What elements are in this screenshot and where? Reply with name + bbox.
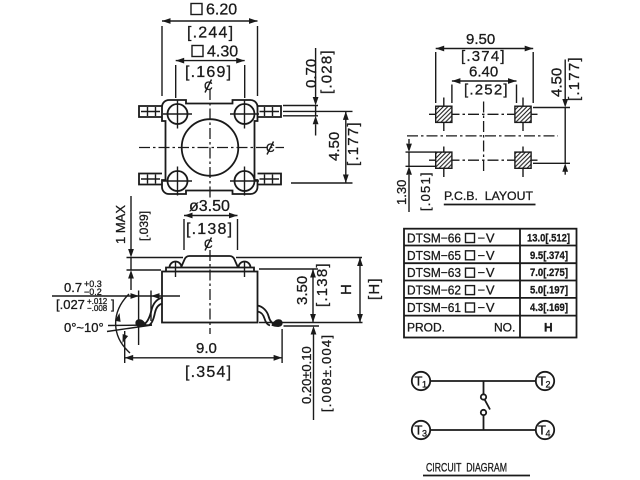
svg-text:−V: −V [478, 300, 495, 315]
pad top-left [436, 106, 452, 122]
svg-text:[.027: [.027 [56, 297, 85, 312]
centerline symbol top [204, 79, 213, 93]
svg-text:0.20±0.10: 0.20±0.10 [299, 346, 314, 404]
dimension 6.20 [162, 2, 258, 97]
cover tab bump left [170, 262, 182, 278]
dimension [.244] [187, 25, 234, 42]
side view body [162, 272, 258, 323]
vertical centerline [209, 89, 211, 199]
table row PROD NO H [407, 321, 553, 335]
dimension H overall height [338, 258, 383, 323]
table row DTSM-66 [407, 231, 570, 246]
svg-text:DTSM−62: DTSM−62 [407, 283, 461, 298]
svg-text:DTSM−63: DTSM−63 [407, 265, 461, 280]
svg-text:[H]: [H] [366, 277, 383, 300]
svg-text:DTSM−65: DTSM−65 [407, 248, 461, 263]
svg-text:3: 3 [422, 429, 427, 439]
dimension [.374] [461, 48, 506, 65]
svg-text:1 MAX: 1 MAX [113, 205, 128, 244]
terminal T2 [536, 372, 554, 390]
svg-text:[.039]: [.039] [137, 211, 151, 241]
table row DTSM-65 [407, 248, 568, 263]
switch lever [485, 400, 490, 410]
terminal T4 [536, 421, 554, 439]
terminal pin top-left [139, 106, 162, 117]
dimension [.169] [185, 64, 232, 81]
svg-text:PROD.: PROD. [407, 321, 445, 335]
actuator button circle [182, 119, 239, 176]
wire T3-T4 [430, 429, 536, 431]
svg-text:−V: −V [478, 283, 495, 298]
svg-text:13.0[.512]: 13.0[.512] [527, 233, 570, 245]
pad bottom-left [436, 152, 452, 168]
dimension 0.20 standoff [299, 326, 334, 420]
push button side profile [181, 256, 238, 268]
svg-text:[.051]: [.051] [418, 171, 433, 211]
table row DTSM-61 [407, 300, 568, 315]
switch upper stem wire [483, 381, 485, 394]
corner rivet circle bottom-left [163, 167, 192, 196]
svg-text:9.0: 9.0 [196, 340, 217, 357]
dimension 4.30 [176, 44, 245, 99]
table frame [404, 229, 577, 338]
pad column centerline right [522, 98, 524, 178]
corner rivet circle top-left [163, 100, 192, 129]
dimension [.252] [464, 82, 509, 99]
wire T1-T2 [430, 380, 536, 382]
svg-text:[.138]: [.138] [314, 262, 331, 307]
svg-text:]: ] [111, 297, 115, 312]
svg-text:0°~10°: 0°~10° [64, 320, 104, 335]
CIRCUIT DIAGRAM label [423, 461, 530, 476]
pad row centerline top [429, 113, 538, 115]
svg-text:[.138]: [.138] [186, 221, 233, 238]
centerline symbol side view [204, 237, 213, 251]
dimension 4.50 vertical right [283, 111, 362, 183]
svg-text:5.0[.197]: 5.0[.197] [530, 285, 568, 297]
svg-text:7.0[.275]: 7.0[.275] [530, 267, 568, 279]
switch contact upper [481, 394, 486, 399]
svg-text:9.50: 9.50 [466, 31, 495, 48]
dimension 1.30 pcb [394, 139, 436, 212]
horizontal centerline [139, 147, 284, 149]
dimension 0.70 vertical right [283, 48, 336, 136]
svg-text:NO.: NO. [494, 321, 515, 335]
svg-text:[.244]: [.244] [187, 25, 234, 42]
terminal pin bottom-right [258, 174, 282, 185]
svg-text:9.5[.374]: 9.5[.374] [530, 250, 568, 262]
corner rivet circle top-right [230, 100, 259, 129]
cover tab bump right [239, 262, 251, 278]
svg-text:4.50: 4.50 [326, 132, 343, 161]
svg-text:CIRCUIT DIAGRAM: CIRCUIT DIAGRAM [426, 461, 507, 475]
CIRCUIT [412, 372, 554, 476]
pad top-right [515, 106, 531, 122]
button top extension line [127, 257, 363, 259]
svg-text:6.20: 6.20 [206, 2, 237, 19]
dimension 1 MAX [113, 196, 161, 290]
TABLE [404, 229, 577, 338]
terminal pin top-right [258, 106, 282, 117]
gull-wing lead left [135, 298, 162, 327]
dimension [.354] [185, 364, 232, 381]
svg-text:2: 2 [546, 380, 551, 390]
terminal T3 [412, 421, 430, 439]
switch body top view outline [162, 100, 258, 194]
dimension angle 0-10 degrees [64, 294, 152, 353]
dimension 9.0 [125, 329, 282, 363]
svg-text:4: 4 [546, 429, 551, 439]
dimension [.138] under 3.50 [186, 221, 233, 238]
pad bottom-right [515, 152, 531, 168]
dimension diameter 3.50 [184, 198, 238, 250]
svg-text:−.008: −.008 [87, 304, 108, 313]
svg-text:[.177]: [.177] [345, 121, 362, 166]
gull-wing lead right [258, 306, 283, 327]
svg-text:P.C.B. LAYOUT: P.C.B. LAYOUT [444, 189, 534, 203]
svg-text:[.354]: [.354] [185, 364, 232, 381]
svg-text:4.30: 4.30 [207, 44, 238, 61]
svg-text:DTSM−61: DTSM−61 [407, 300, 461, 315]
svg-text:[.008±.004]: [.008±.004] [319, 334, 334, 412]
dimension 0.7 lead thickness [52, 279, 180, 313]
corner rivet circle bottom-right [230, 167, 259, 196]
svg-text:−V: −V [478, 248, 495, 263]
svg-text:[.252]: [.252] [464, 82, 509, 99]
svg-text:0.7: 0.7 [64, 280, 82, 295]
svg-text:6.40: 6.40 [469, 64, 498, 81]
side view centerline [209, 250, 211, 334]
svg-text:4.3[.169]: 4.3[.169] [530, 302, 568, 314]
pcb horizontal centerline main [407, 135, 558, 137]
svg-text:H: H [544, 321, 553, 335]
pad row centerline bottom [429, 159, 538, 161]
centerline symbol right [266, 141, 275, 155]
metal cover plate [166, 268, 254, 272]
table row DTSM-63 [407, 265, 568, 280]
dimension 3.50 body height [259, 262, 331, 322]
svg-text:4.50: 4.50 [549, 68, 566, 97]
svg-text:[.169]: [.169] [185, 64, 232, 81]
table row DTSM-62 [407, 283, 568, 298]
terminal T1 [412, 372, 430, 390]
svg-text:[.177]: [.177] [566, 56, 583, 101]
dimension 9.50 [436, 31, 534, 103]
switch lower stem wire [483, 415, 485, 430]
terminal pin bottom-left [139, 174, 162, 185]
dimension 4.50 pcb [533, 56, 583, 174]
P.C.B. LAYOUT label [444, 189, 536, 205]
dimension 6.40 [452, 64, 517, 104]
svg-text:3.50: 3.50 [294, 276, 311, 305]
svg-text:ø3.50: ø3.50 [189, 198, 230, 215]
body bottom extension right [259, 322, 363, 324]
seating plane extension right [284, 325, 320, 327]
switch contact lower [481, 410, 486, 415]
svg-text:0.70: 0.70 [303, 59, 320, 88]
svg-text:DTSM−66: DTSM−66 [407, 231, 461, 246]
TOPVIEW [139, 2, 362, 200]
SIDEVIEW [52, 196, 383, 420]
pad column centerline left [443, 98, 445, 178]
lead thickness extension lines [139, 291, 151, 346]
svg-text:H: H [338, 284, 355, 295]
svg-text:−V: −V [478, 265, 495, 280]
svg-text:[.028]: [.028] [319, 49, 336, 94]
svg-text:1.30: 1.30 [394, 180, 409, 205]
svg-text:−V: −V [478, 231, 495, 246]
PCB [394, 31, 583, 212]
svg-text:[.374]: [.374] [461, 48, 506, 65]
pcb vertical centerline main [483, 102, 485, 174]
svg-text:1: 1 [422, 380, 427, 390]
